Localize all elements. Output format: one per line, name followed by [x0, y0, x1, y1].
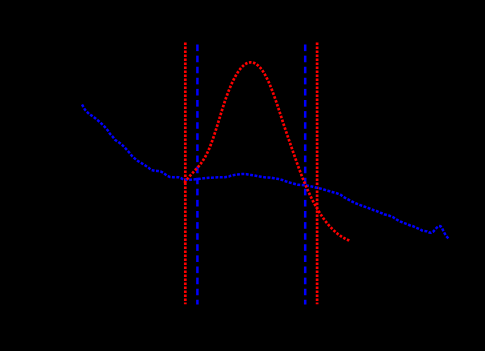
blue dotted data curve (spectrum continuum trace) — [82, 105, 449, 239]
blue dashed vertical line (left window marker) — [196, 45, 199, 305]
red dotted Gaussian fit curve (emission line peak) — [185, 62, 351, 241]
red dotted vertical line (right boundary marker) — [316, 43, 319, 305]
red dotted vertical line (left boundary marker) — [184, 43, 187, 305]
blue dashed vertical line (right window marker) — [304, 45, 307, 305]
